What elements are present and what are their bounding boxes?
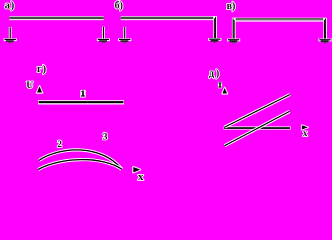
beam C (diagram v, portal frame top, double line) [232, 18, 326, 22]
svg-text:3: 3 [103, 133, 108, 143]
baseline axis (diagram d) [224, 126, 291, 129]
x-axis arrow (diagram g) [133, 167, 140, 173]
ground under right support (diagram a) [97, 38, 110, 43]
lower influence curve (diagram g) [38, 160, 122, 170]
ground under left leg (diagram v) [227, 39, 240, 44]
right leg of frame (diagram v) [323, 18, 327, 40]
axis arrowhead triangle (diagram d) [222, 87, 227, 93]
svg-text:2: 2 [57, 140, 62, 150]
upper sloped line (diagram d) [225, 95, 290, 128]
support link left (diagram a) [9, 27, 12, 39]
ground under right leg (diagram v) [318, 39, 331, 44]
svg-text:х: х [303, 129, 308, 139]
svg-text:а): а) [5, 0, 15, 11]
ground under right leg (diagram b) [208, 38, 221, 43]
svg-text:в): в) [227, 1, 236, 12]
svg-text:х: х [138, 172, 144, 183]
value label 1 (diagram g) [80, 90, 85, 98]
svg-text:U: U [26, 80, 33, 91]
ground under left support (diagram b) [118, 38, 131, 43]
axis arrowhead triangle (diagram g) [37, 86, 43, 93]
svg-text:д): д) [209, 68, 221, 79]
right leg of frame (diagram b, double vertical) [213, 16, 217, 39]
lower sloped line (diagram d) [225, 111, 290, 145]
svg-text:г): г) [37, 64, 47, 75]
label I (ordinate label, diagram d) [218, 82, 222, 88]
ground under left support (diagram a) [4, 38, 17, 43]
x-axis arrow (diagram d) [302, 125, 309, 130]
baseline axis (diagram g) [38, 100, 124, 104]
support link left (diagram b) [123, 27, 126, 40]
upper influence curve (diagram g) [39, 150, 122, 169]
support link right (diagram a) [102, 27, 105, 40]
beam B (diagram b, double line with right leg) [121, 16, 217, 20]
svg-text:б): б) [115, 0, 123, 11]
beam A (diagram a, double line) [9, 16, 103, 20]
left leg of frame (diagram v) [232, 18, 236, 40]
